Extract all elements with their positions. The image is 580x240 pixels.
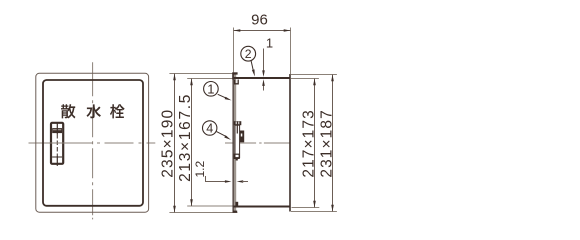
dimension 231x187: top extension line — [289, 74, 337, 76]
balloon 1 leader — [218, 94, 227, 98]
svg-text:231×187: 231×187 — [319, 109, 336, 177]
svg-text:213×167.5: 213×167.5 — [177, 93, 194, 182]
front view horizontal centerline over handle — [50, 142, 65, 144]
box body bottom line — [234, 206, 291, 208]
dimension 96: right arrowhead — [284, 29, 291, 32]
door bottom foot — [233, 211, 238, 213]
handle grip bar (front view) — [52, 128, 62, 133]
dimension 1.2: leader line — [206, 176, 227, 182]
balloon 2 leader — [251, 60, 254, 71]
door panel (side view) gray body — [234, 74, 237, 212]
box body rear line — [289, 75, 291, 212]
handle cap (side view) — [234, 121, 242, 125]
dimension 213x167.5: top arrowhead — [190, 79, 193, 86]
svg-text:1: 1 — [207, 82, 214, 97]
dimension 217x173: top arrowhead — [313, 79, 316, 86]
front view: horizontal centerline — [29, 142, 156, 144]
dimension 217x173: bottom arrowhead — [313, 201, 316, 208]
balloon 4 leader — [217, 132, 228, 137]
front view: outer frame — [36, 73, 149, 212]
dimension 213x167.5: dimension line — [191, 79, 193, 207]
dimension 96: left arrowhead — [234, 29, 241, 32]
svg-text:1.2: 1.2 — [193, 161, 207, 178]
svg-text:235×190: 235×190 — [160, 109, 177, 178]
dimension 1.2: right arrowhead and tail — [237, 180, 244, 183]
dimension 231x187: dimension line — [332, 75, 334, 212]
dimension 217x173: dimension line — [314, 79, 316, 208]
dimension 1.2: left arrowhead — [225, 180, 232, 183]
dimension 96: dimension line — [234, 30, 291, 32]
dimension 217x173: top extension line — [291, 78, 319, 80]
svg-text:2: 2 — [245, 47, 252, 61]
door bottom nub — [235, 202, 238, 206]
dimension 1: lower leader with up arrowhead — [263, 86, 265, 91]
dimension 231x187: top arrowhead — [331, 75, 334, 82]
dimension 1: upper leader with down arrowhead — [263, 49, 265, 72]
handle stem line (front view) — [56, 124, 58, 135]
svg-text:4: 4 — [206, 122, 213, 136]
door frame top section block — [233, 72, 238, 74]
handle recess bottom line (front view) — [52, 156, 62, 158]
handle cam (side view) — [240, 131, 245, 143]
dimension 217x173: bottom extension line — [292, 207, 320, 209]
handle recess outer (front view) — [51, 123, 63, 164]
kanji 散 — [61, 104, 75, 118]
balloon 4 circle — [203, 121, 217, 135]
dimension 231x187: bottom extension line — [291, 211, 337, 213]
dimension 235x190: bottom arrowhead — [173, 206, 176, 213]
dimension 235x190: top extension line — [169, 73, 237, 75]
box body top line — [234, 77, 291, 79]
balloon 1 circle — [204, 82, 219, 97]
dimension 235x190: bottom extension line — [169, 212, 237, 214]
dimension 213x167.5: bottom arrowhead — [190, 199, 193, 206]
dimension 235x190: dimension line — [174, 74, 176, 213]
svg-text:96: 96 — [251, 11, 268, 28]
handle shaft (side view) — [235, 125, 240, 157]
kanji 水 — [87, 104, 101, 118]
kanji 栓 — [110, 104, 125, 118]
dimension 96: extension line right — [290, 28, 292, 75]
dimension 213x167.5: bottom extension line — [187, 205, 233, 207]
side view: horizontal centerline — [225, 142, 290, 144]
latch catch below box top — [235, 80, 239, 84]
dimension 213x167.5: top extension line — [187, 78, 233, 80]
front view: inner door panel — [43, 80, 143, 206]
front view: vertical centerline — [92, 62, 94, 219]
svg-text:217×173: 217×173 — [301, 109, 318, 177]
balloon 2 circle — [241, 46, 256, 61]
handle foot (side view) — [234, 154, 239, 158]
svg-text:1: 1 — [266, 35, 273, 50]
dimension 96: extension line left — [233, 28, 235, 73]
door panel front face line — [232, 74, 234, 212]
dimension 231x187: bottom arrowhead — [331, 205, 334, 212]
dimension 235x190: top arrowhead — [173, 74, 176, 81]
